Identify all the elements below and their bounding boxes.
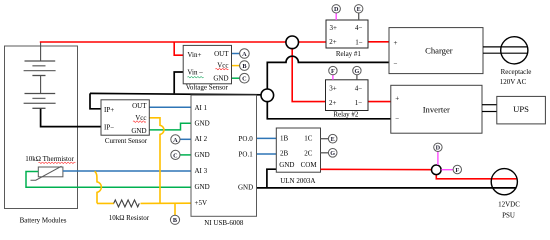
svg-text:OUT: OUT [214,50,229,58]
wire blue PO.1 to ULN 2B [257,153,277,155]
svg-text:4−: 4− [355,85,363,93]
battery modules enclosure box [5,46,78,209]
svg-text:COM: COM [301,161,318,169]
thermistor RT1 body [38,167,63,177]
svg-text:ULN 2003A: ULN 2003A [280,177,315,185]
UPS box [497,96,546,124]
receptacle symbol [501,37,528,64]
node A at voltage sensor [240,49,250,59]
svg-text:Inverter: Inverter [423,104,450,114]
svg-text:Current Sensor: Current Sensor [105,137,148,145]
wire green voltage sensor GND to node C [232,77,241,79]
svg-text:OUT: OUT [132,102,147,110]
svg-text:Vcc: Vcc [135,114,146,122]
svg-text:G: G [354,68,359,75]
wire blue thermistor to AI3 [63,170,191,172]
spellcheck squiggle under Vcc [216,68,229,69]
svg-text:GND: GND [195,151,210,159]
node E at ULN 1C [328,134,337,143]
node B at +5V [170,215,179,224]
svg-text:PSU: PSU [502,212,515,220]
svg-text:2B: 2B [280,150,289,158]
svg-text:GND: GND [195,120,210,128]
svg-text:Relay #1: Relay #1 [336,50,362,58]
wire gray ULN 1C to node E [321,138,329,140]
svg-text:GND: GND [195,183,210,191]
wire black ULN2003A GND drop [267,169,276,188]
wire red drop to voltage sensor Vin+ [174,42,183,55]
svg-text:IP+: IP+ [104,106,114,114]
svg-text:B: B [242,63,246,70]
svg-text:AI 3: AI 3 [195,167,208,175]
node J2 junction circle [261,89,274,102]
wire green node C to NI GND [180,154,191,156]
svg-text:1−: 1− [355,99,363,107]
svg-text:1B: 1B [280,134,289,142]
svg-text:PO.0: PO.0 [239,135,254,143]
wire black from voltage sensor Vin- [174,72,183,93]
svg-text:3+: 3+ [330,24,338,32]
svg-text:Relay #2: Relay #2 [333,111,359,119]
charger box [389,28,483,74]
svg-text:2+: 2+ [329,38,337,46]
node D at J3 [434,143,442,152]
svg-text:E: E [357,6,361,13]
wire magenta node F2 to J3 [441,169,453,171]
svg-text:4−: 4− [355,24,363,32]
battery B1 [24,61,56,76]
voltage sensor U2 box [183,45,231,83]
ULN 2003A U4 box [276,128,320,172]
resistor R1 zigzag [114,200,140,207]
wire yellow current sensor Vcc drop with hop over green [149,118,164,204]
node D above relay K1 [332,5,340,14]
battery B1 top lead wire [40,42,42,61]
12VDC PSU symbol [491,169,517,195]
wire red relay1 1- to charger + [368,41,389,43]
wire yellow stub to node B2 [174,203,176,215]
inverter box [391,85,482,133]
wire blue current sensor OUT to AI1 [149,106,191,108]
svg-text:2+: 2+ [329,99,337,107]
node F at J3 [453,165,461,174]
relay K1 box [326,20,368,48]
thermistor RT1 diagonal [31,166,62,180]
svg-text:10kΩ Resistor: 10kΩ Resistor [109,214,150,222]
wire blue voltage sensor OUT to node A [232,53,241,55]
grammar squiggle under Vin- [188,77,204,78]
node J1 junction circle [286,36,299,49]
node G at ULN 2C [328,149,337,158]
svg-text:−: − [394,59,398,67]
wire black node J2 to charger - with hop over red [267,56,389,90]
node G above relay K2 [353,66,361,75]
svg-text:F: F [455,167,459,174]
NI USB-6008 DAQ U3 box [191,95,257,216]
wire blue PO.0 to ULN 1B [257,137,277,139]
wire black branch to current sensor IP+ [90,93,101,108]
svg-text:Receptacle: Receptacle [501,68,532,76]
wire black ground bus to 12VDC PSU [257,187,517,189]
wire gray ULN 2C to node G [321,152,329,154]
svg-text:C: C [242,76,246,83]
wire red from node J1 down to relay2 2+ [292,42,325,102]
spellcheck squiggle under Thermistor [39,162,76,163]
svg-text:12VDC: 12VDC [498,201,520,209]
UPS feed lines [482,104,497,106]
svg-text:Vcc: Vcc [217,61,228,69]
relay K2 box [326,80,369,111]
svg-text:+: + [394,39,398,47]
battery interconnect wire [40,76,42,94]
current sensor U1 box [101,100,149,135]
wire gray node E to relay K1 [358,13,360,20]
svg-text:D: D [436,145,441,152]
node B at voltage sensor [240,61,250,71]
node C at voltage sensor [240,73,250,83]
svg-text:NI USB-6008: NI USB-6008 [204,219,244,227]
svg-text:F: F [331,68,335,75]
svg-text:Vin –: Vin – [187,69,203,77]
svg-text:A: A [242,51,247,58]
receptacle AC lines [483,46,527,48]
svg-text:C: C [173,152,177,159]
svg-text:−: − [395,115,399,123]
wire gray node G to relay K2 [356,75,358,80]
svg-text:+: + [395,95,399,103]
wire black node J2 to inverter - [267,100,391,119]
wire yellow divider link from AI2 net down with hop over green [95,171,102,203]
node E above relay K1 [355,5,363,14]
svg-text:3+: 3+ [329,85,337,93]
svg-text:AI 1: AI 1 [195,104,208,112]
wire yellow voltage sensor Vcc to node B [232,65,241,67]
wire red node J3 to 12VDC PSU [436,170,516,179]
svg-text:AI 2: AI 2 [195,135,208,143]
node J3 junction circle [432,165,442,175]
wire magenta node D to relay K1 [335,13,337,20]
wire blue node A to AI2 [180,138,191,140]
wire green thermistor to NI GND [26,172,191,188]
svg-text:+5V: +5V [195,199,208,207]
svg-text:Vin+: Vin+ [187,51,201,59]
wire yellow resistor right lead to +5V [141,202,192,204]
node C at GND [171,150,180,159]
svg-text:IP−: IP− [104,123,114,131]
wire magenta node D2 to J3 [437,152,439,166]
svg-text:GND: GND [131,127,146,135]
svg-text:GND: GND [213,75,228,83]
wire yellow resistor left lead [97,202,114,204]
wire magenta node F to relay K2 [332,75,334,80]
svg-text:1C: 1C [304,134,313,142]
wire red positive rail from battery to relay1 2+ [40,41,326,43]
svg-text:10kΩ Thermistor: 10kΩ Thermistor [25,155,74,163]
svg-text:2C: 2C [304,149,313,157]
svg-text:UPS: UPS [513,104,529,114]
svg-text:Battery Modules: Battery Modules [20,217,67,225]
wire red relay2 1- to inverter + [368,101,391,103]
wire black battery negative to current sensor IP- [41,109,101,127]
svg-text:Charger: Charger [425,45,453,55]
svg-text:Voltage Sensor: Voltage Sensor [186,84,229,92]
wire green current sensor GND to NI GND [149,123,191,130]
spellcheck squiggle under Vcc [133,121,146,122]
svg-text:B: B [173,217,177,224]
wire black negative bus to node J2 [90,93,262,94]
node F above relay K2 [329,66,337,75]
svg-text:E: E [331,136,335,143]
svg-text:1−: 1− [355,38,363,46]
svg-text:PO.1: PO.1 [239,150,254,158]
svg-text:G: G [330,150,335,157]
svg-text:A: A [173,137,178,144]
svg-text:120V AC: 120V AC [500,78,527,86]
battery B2 [24,94,56,109]
svg-text:GND: GND [238,184,253,192]
node A at AI2 [171,135,180,144]
wire red ULN COM to node J3 [321,168,437,170]
svg-text:GND: GND [279,161,294,169]
svg-text:D: D [334,6,339,13]
